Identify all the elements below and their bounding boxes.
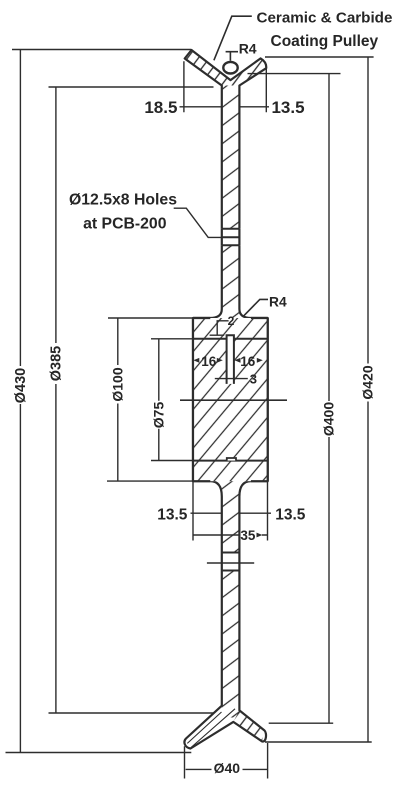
- hub block dense hatch: [193, 318, 268, 481]
- svg-text:R4: R4: [239, 41, 257, 57]
- svg-text:2: 2: [228, 314, 235, 328]
- top shaft hole band (O12.5 hole section): [221, 229, 241, 246]
- dimension 2 keyway depth: [210, 321, 229, 335]
- shaft middle segment with hub: [193, 245, 268, 552]
- dimension O420: [265, 57, 374, 742]
- right foot arm dense hatch: [233, 710, 264, 741]
- svg-text:Ceramic & Carbide: Ceramic & Carbide: [257, 10, 393, 27]
- dimension O100: [107, 318, 193, 481]
- dimension 18.5 top left: [180, 61, 222, 112]
- dimension 35: [193, 534, 268, 536]
- svg-text:Ø420: Ø420: [360, 365, 376, 399]
- label R4 top (rope radius): [226, 52, 238, 61]
- svg-text:Ø75: Ø75: [150, 402, 166, 429]
- label O12.5x8 Holes / at PCB-200: [174, 208, 222, 237]
- top shaft column (sparse hatch): [222, 86, 240, 229]
- dimension O430: [6, 50, 192, 753]
- svg-text:13.5: 13.5: [157, 506, 188, 523]
- svg-text:Ø12.5x8 Holes: Ø12.5x8 Holes: [69, 191, 177, 208]
- svg-text:35: 35: [240, 528, 256, 543]
- svg-text:Ø100: Ø100: [110, 367, 126, 401]
- dimension 13.5 bottom left: [191, 481, 222, 540]
- dimension 3 keyway: [215, 378, 248, 380]
- svg-text:R4: R4: [269, 294, 287, 309]
- svg-text:at PCB-200: at PCB-200: [83, 216, 167, 233]
- bore line bottom (O75 bottom edge): [193, 460, 268, 462]
- dimension 13.5 top right: [239, 69, 269, 113]
- svg-text:13.5: 13.5: [275, 506, 306, 523]
- svg-text:16: 16: [201, 354, 217, 369]
- svg-text:3: 3: [250, 371, 257, 386]
- svg-text:Ø430: Ø430: [13, 368, 29, 403]
- top rim V-groove arms (dense hatch Y shape): [185, 50, 267, 229]
- dimension 13.5 bottom right: [239, 481, 271, 540]
- bottom shaft column (sparse hatch): [222, 571, 240, 718]
- bottom shaft hole band: [207, 553, 254, 571]
- svg-text:Ø385: Ø385: [49, 346, 65, 381]
- svg-text:Coating Pulley: Coating Pulley: [271, 33, 379, 50]
- svg-text:16: 16: [240, 354, 256, 369]
- label Ceramic & Carbide / Coating Pulley: [214, 16, 252, 60]
- left foot arm longitudinal lines: [187, 709, 235, 748]
- dimension O40: [185, 743, 268, 779]
- bottom foot outline: [184, 571, 266, 749]
- svg-text:Ø400: Ø400: [321, 402, 337, 436]
- dimension O385: [49, 87, 214, 713]
- dimension O400: [248, 74, 341, 724]
- svg-text:18.5: 18.5: [144, 98, 177, 117]
- rope cross-section circle R4: [223, 62, 237, 74]
- svg-text:Ø40: Ø40: [214, 760, 241, 776]
- bottom foot (inverted Y) white body: [184, 702, 266, 749]
- keyway slot white column: [227, 335, 234, 384]
- bottom keyway notch: [227, 458, 236, 461]
- dimension O75: [151, 339, 193, 461]
- bore line top (O75 top edge): [193, 338, 268, 340]
- svg-text:13.5: 13.5: [271, 98, 304, 117]
- hub bore centerline: [180, 399, 287, 401]
- label R4 hub fillet: [243, 299, 268, 316]
